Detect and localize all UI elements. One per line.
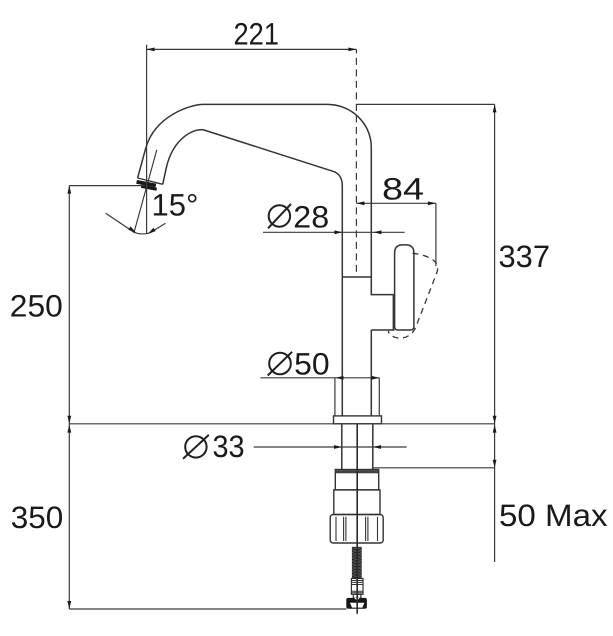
neck above nut <box>353 594 361 598</box>
diameter symbol for D50 <box>268 352 292 376</box>
arrow D33 left <box>334 445 342 449</box>
locking body <box>334 490 380 515</box>
mounting flange body <box>335 470 378 490</box>
washer lines <box>351 581 363 593</box>
dim 337 / 50max vertical <box>494 104 496 562</box>
svg-text:33: 33 <box>213 429 245 464</box>
arrow 350 bottom <box>67 601 71 609</box>
nut top notch <box>354 598 360 601</box>
svg-text:84: 84 <box>382 171 424 206</box>
mounting flange dark band <box>336 470 379 473</box>
ext lines D50 <box>335 378 379 416</box>
arrow 350 top <box>67 425 71 433</box>
svg-text:250: 250 <box>10 288 63 323</box>
dim D50 leader <box>261 377 380 379</box>
threaded rod <box>352 547 362 579</box>
bottom ext line <box>69 608 346 610</box>
svg-text:50 Max: 50 Max <box>499 498 608 533</box>
arrow 84 right <box>428 201 436 205</box>
dim D33 leader <box>254 446 407 448</box>
arrow 337 top <box>493 104 497 112</box>
svg-text:337: 337 <box>499 239 551 274</box>
handle hub edge <box>392 295 394 330</box>
diameter symbol for D28 <box>268 204 291 228</box>
svg-text:28: 28 <box>293 199 329 234</box>
knurled nut <box>330 515 383 544</box>
arrow D28 right <box>373 230 381 234</box>
aerator upper band <box>136 180 156 187</box>
arrow 50max top <box>493 425 497 433</box>
washer stack <box>351 579 363 595</box>
arrow 221 right <box>348 48 356 52</box>
ext line 84 right <box>435 203 437 266</box>
arrow angle left <box>128 226 136 232</box>
arrow 84 left <box>356 201 364 205</box>
dim 250 / 350 vertical <box>68 186 70 609</box>
shank below deck <box>342 424 373 470</box>
knurl grooves <box>336 517 378 541</box>
spout and riser outer contour <box>138 104 395 294</box>
arrow D33 right <box>373 445 381 449</box>
spout inner (lower) contour <box>163 130 343 416</box>
arrow 250 bottom <box>67 416 71 424</box>
spout axis line (15 deg) <box>134 150 157 233</box>
spout outlet face line <box>138 178 163 184</box>
arrow 250 top <box>67 186 71 194</box>
ext line 250 top <box>69 185 145 187</box>
centerline below deck <box>356 424 358 614</box>
angle arc right tail <box>150 223 166 233</box>
thread texture <box>352 547 362 577</box>
diameter symbol for D33 <box>183 435 209 459</box>
angle arc left tail <box>106 213 133 231</box>
arrow angle right <box>148 228 156 234</box>
handle rotated position (dashed) <box>388 253 437 338</box>
svg-text:350: 350 <box>11 500 64 535</box>
centerline dashed <box>355 49 357 277</box>
deck line <box>69 423 494 425</box>
svg-text:50: 50 <box>294 346 330 381</box>
base flange (D50) <box>334 416 382 424</box>
dim D28 leader <box>263 231 405 233</box>
arrow D50 left <box>336 376 344 380</box>
supply nut <box>346 598 367 609</box>
dim 221 line <box>147 48 357 50</box>
arrow D50 right <box>371 376 379 380</box>
arrow D28 left <box>334 230 342 234</box>
svg-text:15°: 15° <box>152 187 199 222</box>
ext line 337 top <box>356 103 494 105</box>
arrow 50max bottom <box>493 460 497 468</box>
angle arc bottom <box>133 232 150 234</box>
ext line 221 left <box>146 45 148 234</box>
dim 84 line <box>356 202 436 204</box>
body joint line <box>342 276 371 278</box>
deck underside line <box>372 467 495 469</box>
handle (lever) <box>395 245 414 330</box>
body lower step to handle <box>371 330 394 416</box>
aerator lower band <box>141 185 157 191</box>
arrow 221 left <box>147 48 155 52</box>
nut facet <box>350 603 365 608</box>
arrow 337 bottom <box>493 416 497 424</box>
svg-text:221: 221 <box>234 16 280 51</box>
